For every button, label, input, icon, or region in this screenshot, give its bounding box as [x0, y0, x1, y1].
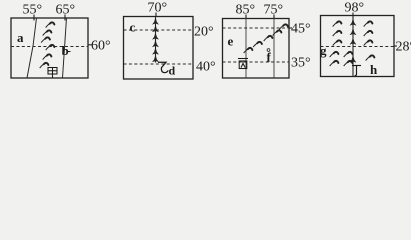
svg-text:c: c	[130, 20, 136, 35]
arrowhead on meridian	[350, 56, 356, 62]
box 2 frame	[124, 17, 194, 80]
arrowhead on meridian	[350, 38, 356, 44]
wind arrow	[330, 52, 339, 57]
wind arrow	[279, 24, 288, 29]
wind arrow	[43, 54, 52, 59]
tick 70°	[155, 13, 157, 17]
svg-text:d: d	[169, 64, 176, 78]
meridian 98°	[352, 16, 354, 77]
wind arrow	[344, 52, 353, 57]
tick 75°	[273, 15, 275, 19]
arrowhead on meridian	[350, 29, 356, 35]
tick 55°	[33, 15, 35, 21]
arrowhead on meridian	[153, 41, 159, 47]
meridian 75°	[273, 18, 275, 78]
svg-text:20°: 20°	[194, 25, 214, 40]
meridian 70°	[155, 17, 157, 63]
meridian 65°	[63, 18, 67, 78]
svg-text:b: b	[62, 43, 69, 58]
wind arrow	[333, 40, 342, 45]
dashed parallel 40°	[124, 63, 194, 65]
arrowhead on meridian	[153, 48, 159, 54]
wind arrow	[40, 63, 49, 68]
dashed parallel 60°	[11, 46, 88, 48]
dashed parallel 20°	[124, 29, 194, 31]
wind arrow	[364, 40, 373, 45]
wind arrow	[46, 22, 55, 27]
arrowhead on meridian	[350, 19, 356, 25]
box 3 frame	[223, 19, 290, 79]
svg-text:28°: 28°	[396, 40, 411, 55]
wind arrow	[46, 45, 55, 50]
wind arrow	[333, 21, 342, 26]
wind arrow	[264, 36, 273, 41]
wind arrow	[364, 21, 373, 26]
svg-text:45°: 45°	[291, 22, 311, 37]
wind arrow	[366, 55, 375, 60]
wind arrow	[244, 48, 253, 53]
character 乙	[158, 62, 168, 72]
svg-text:70°: 70°	[148, 1, 168, 16]
wind arrow	[344, 61, 353, 66]
dashed parallel 28°	[321, 46, 395, 48]
wind arrow	[41, 37, 50, 42]
wind arrow	[364, 31, 373, 36]
svg-text:a: a	[17, 30, 24, 45]
svg-text:35°: 35°	[291, 56, 311, 71]
svg-text:f: f	[267, 50, 272, 65]
wind arrow	[330, 61, 339, 66]
svg-text:98°: 98°	[345, 1, 365, 16]
meridian 55°	[27, 18, 37, 78]
svg-text:85°: 85°	[236, 3, 256, 18]
character 甲	[48, 68, 57, 78]
svg-text:55°: 55°	[23, 3, 43, 18]
dash at b	[68, 51, 71, 53]
dashed parallel 35°	[223, 61, 290, 63]
dashed parallel 45°	[223, 27, 290, 29]
arrowhead on meridian	[153, 33, 159, 39]
svg-text:g: g	[320, 43, 327, 58]
leader dash 45°	[289, 27, 292, 29]
svg-text:75°: 75°	[264, 3, 284, 18]
wind arrow	[253, 42, 262, 47]
leader dash 28°	[394, 45, 397, 47]
wind arrow	[43, 30, 52, 35]
tick 98°	[352, 13, 354, 16]
arrowhead on meridian	[153, 18, 159, 24]
svg-text:60°: 60°	[91, 39, 111, 54]
svg-text:40°: 40°	[196, 60, 216, 75]
point f circle	[267, 49, 270, 52]
arrowhead on meridian	[153, 56, 159, 62]
wind arrow	[273, 30, 282, 35]
leader dash 60°	[88, 44, 92, 46]
character 丁	[352, 66, 361, 76]
arrowhead on meridian	[153, 26, 159, 32]
tick 65°	[64, 15, 66, 21]
box 4 frame	[321, 16, 395, 77]
meridian 85°	[245, 18, 247, 78]
wind arrow	[333, 31, 342, 36]
svg-text:e: e	[228, 34, 234, 49]
svg-text:h: h	[370, 62, 378, 77]
character 丙	[238, 59, 248, 69]
tick 85°	[245, 15, 247, 19]
box 1 frame	[11, 18, 88, 78]
